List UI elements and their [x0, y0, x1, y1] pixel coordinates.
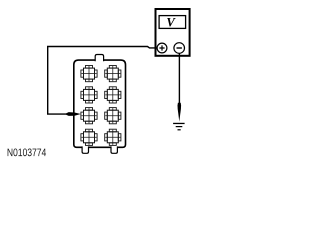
pin socket row1 right	[105, 66, 121, 82]
ground bar 3	[178, 129, 181, 130]
pin socket row3 left (probed)	[81, 108, 97, 124]
label N0103774	[8, 148, 46, 156]
connector bottom foot left	[82, 146, 88, 153]
voltmeter body	[156, 9, 190, 56]
pin socket row2 right	[105, 87, 121, 103]
plus terminal	[157, 43, 167, 53]
wire negative lead to ground	[178, 53, 180, 104]
voltmeter U1	[156, 9, 190, 56]
ground bar 2	[176, 126, 183, 127]
connector top tab	[95, 55, 103, 62]
ground	[173, 103, 185, 131]
wire positive lead from voltmeter to connector	[48, 47, 157, 115]
arrow pointing to pin	[66, 112, 81, 116]
voltmeter display	[159, 16, 186, 29]
pin socket row4 right	[105, 129, 121, 145]
pin socket row1 left	[81, 66, 97, 82]
ground spike	[178, 103, 182, 122]
pin socket row4 left	[81, 129, 97, 145]
pin terminals (8 sockets)	[81, 66, 121, 146]
voltmeter V label	[167, 18, 176, 26]
connector bottom foot right	[111, 146, 117, 153]
ground bar 1	[173, 123, 185, 124]
minus terminal	[174, 43, 185, 54]
pin socket row2 left	[81, 87, 97, 103]
pin socket row3 right	[105, 108, 121, 124]
connector body	[74, 60, 126, 147]
